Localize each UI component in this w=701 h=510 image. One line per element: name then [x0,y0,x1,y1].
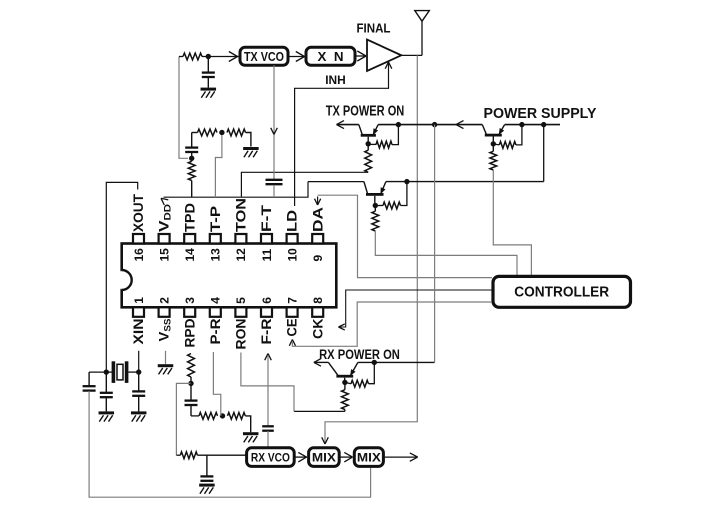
svg-text:3: 3 [183,297,197,304]
wire C7 to MIX2 output loop [89,391,371,497]
node B (R4/R6 junction) [219,130,224,135]
svg-text:8: 8 [311,297,325,304]
transistor Q2 (TX power switch 2) [364,182,386,196]
block MIX2 [354,448,383,467]
wire Q4 output to RON [294,410,345,412]
wire pin XOUT to crystal [106,182,137,371]
node Q2 rail junction [404,179,409,184]
wire TX VCO to X N with arrow [288,52,305,62]
resistor R11 (Q4 base) [345,362,374,387]
wire Q3 collector [492,137,494,142]
resistor R15 [228,413,251,433]
wire pin CE to CONTROLLER [289,302,492,346]
wire pin RON to Q4 output [241,353,294,412]
resistor R7 (Q2 base) [375,182,407,209]
node RX rail junction [372,360,377,365]
node Q2 collector [373,203,378,208]
svg-text:9: 9 [311,255,325,262]
wire INH (LD to FINAL inhibit) [295,62,392,206]
svg-text:MIX: MIX [312,450,336,464]
label INH [325,73,346,87]
ground below C5 [99,411,115,421]
node crystal right [136,369,141,374]
capacitor C5 (XOUT load) [100,372,113,411]
svg-text:13: 13 [209,248,223,262]
crystal X1 [106,361,138,383]
wire Q2 rail [308,125,544,182]
label POWER SUPPLY [484,106,597,122]
node E (R14/R15 junction) [220,413,225,418]
wire switched-VDD rail to pin VDD [161,182,308,205]
resistor R9 (Q3 base) [493,125,522,149]
svg-text:P-R: P-R [208,318,223,344]
node Q1 collector [366,141,371,146]
wire TX VCO control-voltage net (left vertical) [179,57,188,159]
op-amp FINAL (power amplifier triangle) [367,40,401,72]
wire pin F-R to RX VCO [265,354,272,426]
wire Q2 output to CONTROLLER [375,231,517,275]
svg-text:TPD: TPD [182,203,197,232]
svg-text:5: 5 [234,297,248,304]
wire pin P-R to node E [213,352,220,416]
resistor R8 (Q2 output, vertical) [372,206,379,232]
capacitor C3 (TON coupling) [266,180,283,197]
resistor R3 (Q1 output, vertical) [365,144,372,173]
transistor Q1 (TX power switch) [359,125,378,137]
wire pin VSS to ground [165,351,167,364]
capacitor C7 (feedback coupling) [83,372,107,391]
label FINAL [357,22,391,36]
svg-text:TON: TON [234,198,249,232]
wire TX VCO to TON [271,65,278,180]
node A (R1 output junction) [206,54,211,59]
svg-text:CK: CK [310,318,325,339]
wire Q1 output to TON [241,172,368,197]
wire MIX1 to MIX2 with arrow [339,452,352,462]
wire FINAL output [401,54,422,56]
svg-text:POWER SUPPLY: POWER SUPPLY [484,106,597,122]
svg-text:10: 10 [285,248,299,262]
svg-text:11: 11 [260,248,274,261]
svg-text:LD: LD [285,210,300,232]
IC U1 top pins 16-9 [133,234,323,244]
capacitor C4 (F-R coupling) [262,426,274,448]
capacitor C6 (XIN load) [132,372,145,411]
ground below R6 [243,147,259,157]
svg-text:7: 7 [285,297,299,304]
svg-text:FINAL: FINAL [357,22,391,36]
resistor R6 [227,129,251,146]
svg-text:F-T: F-T [259,204,274,232]
node D (RPD junction) [188,381,193,386]
wire FINAL output down to MIX injection [322,55,418,444]
resistor R5 (TPD, vertical) [188,158,195,197]
block RX VCO [247,448,295,467]
node C (C2/R5 junction) [189,156,194,161]
wire pin DA to CONTROLLER [315,195,493,277]
svg-text:16: 16 [132,248,146,262]
svg-text:MIX: MIX [357,450,381,464]
ground below C9 [199,484,215,494]
label RX POWER ON [319,347,400,362]
node crystal left [104,369,109,374]
resistor R10 (Q3 output, vertical) [490,144,497,170]
svg-text:15: 15 [157,248,171,262]
wire RX power rail [314,125,435,367]
wire RX VCO to MIX1 with arrow [294,452,307,462]
svg-text:CONTROLLER: CONTROLLER [514,285,609,301]
svg-text:CE: CE [285,319,300,337]
svg-text:RX VCO: RX VCO [251,450,290,464]
svg-text:TX VCO: TX VCO [244,50,284,64]
node Q4 collector [342,380,347,385]
wire X N to FINAL with arrow [355,51,366,61]
wire pin CK to CONTROLLER [339,290,494,330]
resistor R12 (Q4 output, vertical) [342,382,349,411]
ground below C1 [201,88,217,98]
svg-text:XOUT: XOUT [131,193,146,232]
ground below C6 [131,411,147,421]
svg-text:14: 14 [183,248,197,262]
IC U1 top pin numbers [132,248,325,262]
svg-text:6: 6 [260,297,274,304]
capacitor C2 (TPD) [185,133,198,157]
block MIX1 [309,448,340,467]
svg-text:DA: DA [310,207,325,232]
IC U1 bottom pin labels [131,318,325,349]
wire MIX2 output with arrow [383,453,417,461]
IC U1 bottom pins 1-8 [133,307,323,317]
svg-text:12: 12 [234,248,248,262]
svg-text:RPD: RPD [182,318,197,347]
transistor Q3 (power-supply switch) [482,125,504,137]
wire crystal to pin XIN [138,351,140,372]
IC U1 top pin labels [131,193,325,232]
wire Q2 collector [374,196,376,203]
wire node D to RX VCO line [176,383,191,455]
wire Q3 output down to CONTROLLER [493,170,531,275]
svg-text:F-R: F-R [259,318,274,344]
svg-text:TX POWER ON: TX POWER ON [326,104,405,120]
resistor R16 (RX VCO input) [176,452,246,459]
svg-text:4: 4 [209,297,223,304]
wire Q4 collector [344,378,346,380]
wire Q1 collector [367,137,369,142]
resistor R2 (Q1 base-emitter) [368,125,398,148]
resistor R4 [192,129,217,136]
svg-text:RX POWER ON: RX POWER ON [319,347,400,362]
resistor R14 [191,413,218,420]
node Q3 collector [491,141,496,146]
svg-text:2: 2 [157,297,171,304]
resistor R13 (RPD, vertical) [188,354,195,384]
IC U1 (16-pin PLL synthesizer) body [119,244,336,308]
label TX POWER ON [326,104,405,120]
block CONTROLLER [493,276,631,307]
svg-text:X N: X N [318,50,344,64]
IC U1 bottom pin numbers [132,297,325,304]
capacitor C1 [202,57,215,88]
transistor Q4 (RX power switch) [328,362,358,377]
capacitor C9 (RX VCO input bypass) [200,455,213,481]
resistor R1 (TX VCO input) [179,53,239,60]
ground at VSS [158,364,174,374]
wire R1 to TX VCO with arrow [229,52,238,62]
svg-text:RON: RON [234,319,249,350]
block TX VCO [240,47,288,65]
node supply-rail junctions [396,122,547,127]
capacitor C8 [185,383,198,416]
wire supply rail with arrows [337,121,561,129]
wire node B to pin T-P [215,135,222,197]
ground below R15 [243,432,259,442]
antenna [415,11,430,56]
svg-text:T-P: T-P [208,206,223,232]
svg-text:INH: INH [325,73,346,87]
block X N multiplier [306,47,355,65]
svg-text:1: 1 [132,297,146,304]
svg-text:XIN: XIN [131,319,146,345]
